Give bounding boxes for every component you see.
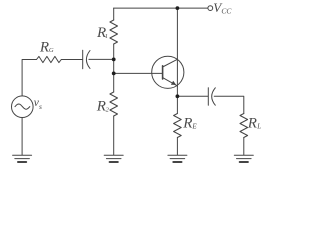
capacitor C2 — [208, 88, 215, 105]
node dot B1 (cap junction) — [112, 58, 116, 62]
wire C1 to node B — [89, 58, 114, 60]
svg-text:R: R — [182, 116, 192, 132]
ground G3 (RE) — [168, 155, 187, 162]
node dot top rail — [176, 6, 180, 10]
wire R1 bottom to node B — [113, 44, 115, 59]
resistor R2 — [110, 92, 118, 116]
svg-text:CC: CC — [221, 7, 232, 16]
ground G2 (R2) — [104, 155, 123, 162]
wire base node to R2 — [113, 73, 115, 92]
wire collector — [176, 8, 178, 59]
svg-text:R: R — [96, 99, 106, 115]
terminal Vcc circle — [208, 6, 213, 11]
wire emitter to node E — [176, 86, 178, 96]
ground G1 (source) — [13, 155, 32, 162]
svg-text:R: R — [247, 115, 257, 131]
wire C2 to RL — [214, 96, 244, 113]
resistor RE — [174, 114, 182, 138]
node dot B2 (base junction) — [112, 72, 116, 76]
wire node E to RE — [176, 96, 178, 113]
svg-text:G: G — [49, 47, 54, 54]
wire R1 top lead — [113, 8, 115, 20]
resistor R1 — [110, 20, 118, 44]
resistor RL — [240, 114, 248, 138]
svg-text:2: 2 — [106, 107, 110, 114]
capacitor C1 — [83, 50, 90, 69]
wire base lead — [114, 72, 163, 74]
resistor RG — [37, 56, 62, 62]
wire RG to C1 — [61, 59, 82, 61]
svg-text:1: 1 — [105, 33, 108, 40]
svg-text:s: s — [39, 102, 42, 111]
wire top rail Vcc — [114, 7, 208, 9]
transistor Q1 — [152, 56, 184, 88]
wire vs bottom lead — [21, 118, 23, 155]
wire node E to C2 — [177, 95, 207, 97]
ground G4 (RL) — [234, 155, 253, 162]
wire through transistor right — [176, 59, 178, 86]
wire RL bottom lead — [243, 138, 245, 155]
source vs — [11, 96, 33, 118]
wire RE bottom lead — [176, 138, 178, 155]
wire input left loop — [22, 60, 36, 96]
wire R2 bottom lead — [113, 116, 115, 155]
wire node B to base node — [113, 59, 115, 73]
svg-text:L: L — [256, 122, 261, 130]
svg-text:E: E — [191, 123, 197, 131]
node dot emitter — [176, 94, 180, 98]
svg-text:R: R — [39, 40, 49, 56]
